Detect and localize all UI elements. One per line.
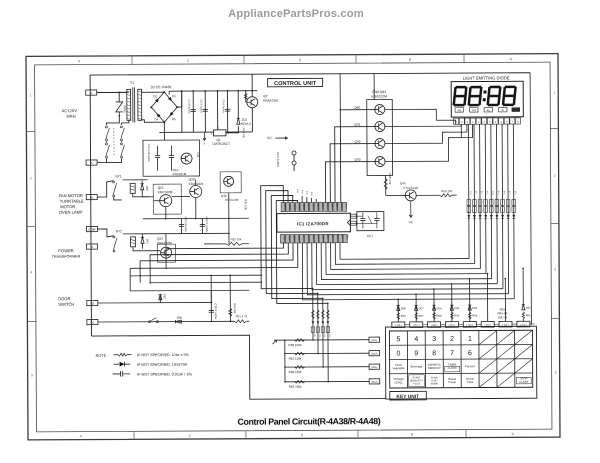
wire IC row d [130, 243, 298, 268]
wire IC top pin2 route [266, 190, 318, 293]
wire LED segment line 3 [479, 124, 482, 268]
junction scan top 3 [322, 298, 324, 300]
junction top rail x239 [237, 90, 239, 92]
svg-text:SEG-F: SEG-F [307, 204, 309, 211]
diode arrow on segment 7 [501, 215, 504, 219]
svg-text:DOOR: DOOR [58, 296, 70, 301]
wire scan row 3 [322, 298, 324, 367]
IC1 top pin box 3 [291, 202, 295, 211]
transformer T1 core [132, 87, 134, 122]
wire key column G7 [415, 294, 417, 322]
svg-text:4: 4 [414, 336, 418, 343]
frame tick bottom 2 [245, 431, 247, 439]
frame tick top 3 [355, 55, 357, 63]
resistor R68 wire [385, 176, 387, 196]
key grid hline 3 [390, 372, 533, 375]
transistor Q22 box [157, 244, 175, 262]
wire key column G1 [522, 268, 524, 304]
svg-text:LEVEL: LEVEL [394, 380, 403, 384]
svg-text:7: 7 [450, 350, 454, 357]
wire VA common vertical [284, 340, 286, 382]
wire bus line 1 [340, 242, 469, 259]
IC1 bottom pin box 4 [295, 234, 299, 243]
frame tick bottom 1 [133, 431, 135, 439]
subcircuit box Q10 [143, 140, 200, 176]
wire G8 link [405, 324, 410, 326]
svg-text:KTC1514M: KTC1514M [403, 186, 418, 190]
diode D54 [468, 305, 471, 310]
svg-text:AC120V: AC120V [62, 108, 78, 113]
svg-text:VC: VC [409, 220, 414, 224]
bridge corner dot top [163, 91, 165, 93]
note capacitor symbol [113, 373, 120, 375]
wire secondary top to bridge [141, 91, 164, 93]
wire RY1 coil to Q21 [133, 193, 154, 197]
chip resistor R77 b [506, 206, 510, 212]
svg-text:CONTROL UNIT: CONTROL UNIT [274, 81, 317, 87]
wire LED segment line 7 [501, 124, 504, 289]
resistor R64 [469, 312, 471, 319]
junction top rail x182.5 [181, 90, 183, 92]
transistor Q40 [375, 105, 385, 115]
chip resistor R76 a [501, 199, 505, 205]
svg-text:( G1 ): ( G1 ) [520, 323, 527, 327]
svg-text:D5: D5 [172, 117, 176, 121]
junction scan top 4 [327, 303, 329, 305]
IC1 bottom pin box 6 [305, 234, 309, 243]
transistor Q44 [405, 190, 416, 201]
wire Q40 collector to display [385, 109, 456, 124]
key blank diagonal r1c8 [515, 330, 533, 344]
svg-text:(G12): (G12) [371, 381, 378, 384]
relay RY1 contact [113, 181, 115, 183]
diode D32 [159, 295, 162, 300]
transistor Q20 [190, 185, 202, 197]
resistor R69 [440, 194, 452, 197]
svg-text:OSC: OSC [345, 203, 347, 208]
LED connector pin box 2 [459, 118, 464, 124]
junction door1 [210, 302, 212, 304]
key blank diagonal r4c6 [479, 373, 497, 387]
diode arrow on segment 6 [496, 215, 499, 219]
svg-text:Muffin: Muffin [431, 381, 439, 385]
resistor R65 [451, 312, 453, 319]
capacitor C3 wire [226, 91, 228, 132]
IC1 bottom pin box 14 [343, 234, 347, 243]
key grid vline 1 [406, 331, 408, 388]
capacitor C10 symbol [155, 156, 160, 158]
svg-text:R78: R78 [514, 191, 516, 194]
wire RY1 bus [123, 179, 143, 181]
svg-text:Beverage: Beverage [411, 364, 423, 368]
IC1 body [277, 213, 351, 232]
svg-text:KRC243M: KRC243M [158, 190, 173, 194]
wire box to rail [163, 132, 165, 140]
chip box scan 1 [311, 327, 314, 333]
chip resistor R71 b [473, 207, 477, 213]
svg-text:FAN MOTOR: FAN MOTOR [59, 193, 83, 198]
connector G12 box [369, 379, 380, 384]
capacitor C3 symbol [225, 109, 230, 111]
control unit bottom boundary wire [91, 335, 385, 401]
wire IC top pin1 route [261, 185, 313, 288]
svg-text:R83 150k: R83 150k [289, 385, 302, 389]
wire LED segment line 6 [495, 124, 498, 284]
connector G11 box [369, 364, 380, 369]
arrow VC below Q44 [410, 201, 412, 217]
junction scan top 1 [312, 288, 314, 290]
LED digit 2 (8) [469, 87, 482, 105]
wire mid horizontal a [143, 217, 249, 220]
relay RY2 coil [130, 237, 135, 247]
svg-text:SEG-B: SEG-B [288, 204, 290, 211]
svg-text:6: 6 [468, 350, 472, 357]
svg-text:( G4 ): ( G4 ) [466, 323, 473, 327]
resistor R82 [295, 366, 305, 369]
wire mid horizontal b [143, 232, 230, 234]
svg-text:Q42: Q42 [354, 140, 360, 144]
connector G7 box [410, 322, 423, 328]
svg-text:D56: D56 [437, 306, 442, 310]
diode arrow on segment 2 [473, 215, 476, 219]
IC1 bottom pin box 7 [309, 234, 313, 243]
frame tick bottom 3 [357, 430, 359, 438]
svg-text:KEY UNIT: KEY UNIT [396, 394, 419, 400]
wire bridge minus out [163, 122, 165, 132]
svg-text:IC1 IZA700DR: IC1 IZA700DR [297, 221, 329, 226]
IC1 top pin box 7 [309, 202, 313, 211]
wire varistor to interlock [106, 116, 119, 125]
key START inner box [409, 375, 425, 387]
LED connector pin box 10 [504, 118, 509, 124]
svg-text:IF NOT SPECIFIED, 1SS270A: IF NOT SPECIFIED, 1SS270A [137, 363, 188, 367]
svg-text:VDD: VDD [340, 203, 342, 208]
svg-text:( G2 ): ( G2 ) [502, 323, 509, 327]
svg-text:R18 15k: R18 15k [242, 128, 246, 138]
svg-text:KRA101M: KRA101M [263, 99, 278, 103]
key grid vline 4 [460, 331, 462, 388]
svg-text:KRA101M: KRA101M [225, 198, 239, 202]
key blank diagonal r3c8 [515, 359, 533, 373]
wire key row 4 [285, 380, 369, 382]
diode arrow scan 3 [322, 321, 325, 324]
rail vertical plain [181, 91, 183, 132]
LED digit 3 (8) [488, 87, 501, 105]
wire key row 1 [274, 339, 368, 341]
wire bus line 5 [321, 242, 491, 280]
IC1 top pin box 12 [333, 202, 337, 211]
IC1 top pin box 5 [300, 202, 304, 211]
wire Q22 emitter [165, 259, 167, 269]
frame tick left 2 [27, 225, 35, 227]
svg-text:TRANSFORMER: TRANSFORMER [52, 255, 81, 259]
interlock switch 3 [120, 126, 122, 128]
chip resistor R71 a [473, 200, 477, 206]
svg-text:PLUS: PLUS [413, 382, 420, 386]
wire IC top pin4 route [276, 200, 328, 303]
diode arrow on segment 4 [484, 215, 487, 219]
resistor scan 4 [327, 310, 329, 319]
svg-text:D98: D98 [177, 316, 183, 320]
chip resistor R74 b [489, 206, 493, 212]
svg-text:R68 2.2k: R68 2.2k [388, 173, 392, 184]
wire IC row b [150, 243, 288, 255]
wire row290 to C38 [210, 290, 212, 302]
wire G2 link [512, 323, 517, 325]
svg-text:CLEAR: CLEAR [519, 380, 528, 384]
LED connector pin box 12 [515, 118, 520, 124]
key unit outer box [385, 326, 536, 399]
wire primary bottom [121, 120, 129, 123]
svg-text:GND: GND [345, 235, 347, 240]
wire A1 to transformer primary [97, 91, 129, 93]
bridge diode D4 triangle [157, 113, 161, 117]
resistor R58 [294, 339, 304, 342]
capacitor C12 symbol [169, 156, 174, 158]
svg-text:R77: R77 [508, 191, 510, 194]
IC1 top pin box 8 [314, 202, 318, 211]
svg-text:RY1: RY1 [116, 174, 122, 178]
svg-text:SEG-G: SEG-G [312, 203, 314, 210]
frame tick right 3 [551, 318, 559, 320]
svg-text:Q21: Q21 [158, 186, 164, 190]
bridge diode D3 triangle [168, 97, 172, 101]
key grid vline 3 [442, 331, 444, 388]
wire scan row 2 [317, 293, 319, 353]
ground arrow below Q1 [203, 132, 205, 140]
wire Q42 base to IC [330, 144, 375, 203]
KEY UNIT box [390, 391, 427, 400]
wire G5 link [458, 323, 463, 325]
frame tick left 3 [27, 320, 35, 322]
wire IC top pin3 route [271, 195, 323, 298]
note resistor symbol [114, 354, 118, 356]
svg-text:( G5 ): ( G5 ) [449, 323, 456, 327]
svg-text:KRA222M: KRA222M [157, 241, 172, 245]
resistor R50 wire [229, 275, 231, 321]
svg-text:D1: D1 [90, 321, 94, 325]
svg-text:R58 150k: R58 150k [289, 343, 302, 347]
CONTROL UNIT label box [268, 78, 323, 86]
bridge corner dot bottom [163, 121, 165, 123]
transistor Q21 [160, 195, 172, 207]
wire Q22 collector [165, 234, 167, 247]
wire interlock link2 [120, 141, 122, 142]
svg-text:D4: D4 [154, 117, 158, 121]
svg-text:Q22: Q22 [157, 237, 163, 241]
border frame inner [35, 62, 552, 432]
connector terminal COM y228 [86, 226, 97, 231]
svg-text:T1: T1 [130, 81, 134, 85]
connector pin circle P1 [292, 151, 296, 155]
key grid vline 5 [478, 331, 480, 388]
transistor Q21 box [153, 184, 181, 214]
LED connector pin box 7 [487, 118, 492, 124]
LED connector pin box 4 [470, 118, 475, 124]
wire Q41 collector to display [385, 124, 461, 126]
svg-text:LM78L05CT: LM78L05CT [212, 142, 230, 146]
junction key row 2 [284, 353, 286, 355]
chip resistor R72 a [478, 200, 482, 206]
svg-text:R73: R73 [486, 191, 488, 194]
svg-text:A: A [204, 141, 206, 145]
wire Q1 input [216, 91, 218, 130]
junction top rail x194 [192, 90, 194, 92]
svg-text:D30: D30 [145, 186, 149, 192]
IC1 bottom pin box 5 [300, 234, 304, 243]
svg-text:IF NOT SPECIFIED, 0.01uF / 16: IF NOT SPECIFIED, 0.01uF / 16v [137, 372, 192, 376]
wire RY2 top [97, 229, 114, 237]
wire IC row c [140, 243, 293, 261]
svg-text:SEG-C: SEG-C [293, 204, 295, 211]
wire P1 stub [293, 155, 295, 161]
resistor R81 [295, 352, 305, 355]
svg-text:9: 9 [414, 350, 418, 357]
regulator Q1 box [213, 130, 226, 136]
svg-text:R66: R66 [401, 314, 406, 318]
junction door row C38 [211, 321, 213, 323]
svg-text:SEG-D: SEG-D [297, 204, 299, 211]
wire key column G8 [397, 299, 399, 322]
chip resistor R77 a [506, 199, 510, 205]
connector terminal A y91 [86, 90, 97, 95]
IC1 bottom pin box 3 [290, 234, 294, 243]
bridge diode D5 triangle [170, 112, 174, 116]
wire bus line 2 [335, 242, 474, 264]
svg-text:2: 2 [554, 174, 556, 178]
LED connector pin box 1 [454, 118, 459, 124]
connector G10 box [369, 351, 380, 356]
key blank diagonal r3c6 [479, 359, 497, 373]
wire bus line 8 [307, 242, 509, 295]
wire G1 link [530, 323, 535, 325]
svg-text:R81 150k: R81 150k [289, 357, 302, 361]
wire ZD1 top [237, 110, 239, 118]
svg-text:( G3 ): ( G3 ) [484, 323, 491, 327]
svg-text:G10: G10 [318, 334, 320, 338]
wire Q20 Q21 link [172, 196, 190, 198]
svg-text:5: 5 [396, 336, 400, 343]
diode arrow scan 2 [317, 321, 320, 324]
IC1 right pin box a [351, 214, 357, 218]
wire key column G3 [486, 274, 488, 322]
connector terminal D2 y302 [87, 300, 98, 305]
wire bus line 9 [302, 242, 514, 300]
svg-text:Q20: Q20 [189, 178, 195, 182]
capacitor C20 wire [180, 219, 182, 234]
key TIMER CLOCK inner box [445, 366, 460, 372]
svg-text:Potato: Potato [448, 380, 456, 384]
resistor R68 zigzag [384, 179, 387, 190]
wire long row f [150, 281, 262, 284]
svg-text:LIGHT EMITTING DIODE: LIGHT EMITTING DIODE [463, 75, 510, 80]
LED annunciator box 3 [484, 108, 492, 112]
key blank diagonal r2c8 [515, 344, 533, 358]
LED connector pin box 5 [476, 118, 481, 124]
svg-text:1: 1 [468, 336, 472, 343]
IC1 top pin box 11 [328, 202, 332, 211]
wire coil top link [114, 197, 122, 200]
diode D57 [415, 305, 418, 310]
frame tick right 2 [551, 223, 559, 225]
junction scan 2 [317, 353, 319, 355]
transistor Q10 [181, 153, 192, 164]
arrow VA [272, 340, 276, 344]
wire scan row 4 [327, 303, 329, 381]
chip resistor R74 a [489, 199, 493, 205]
chip resistor R73 a [484, 199, 488, 205]
svg-text:0: 0 [397, 350, 401, 357]
svg-text:A: A [90, 91, 92, 95]
control unit top boundary wire [90, 73, 530, 75]
svg-text:R70: R70 [469, 191, 471, 194]
transformer T1 primary winding [127, 89, 131, 120]
wire interlock join top [120, 123, 122, 125]
frame tick right 1 [550, 128, 558, 130]
wire LED segment line 8 [507, 124, 510, 294]
wire left drop [129, 268, 131, 290]
connector G9 box [369, 337, 380, 342]
svg-text:DIG-1: DIG-1 [316, 203, 318, 209]
chip resistor R72 b [478, 207, 482, 213]
svg-text:3: 3 [432, 336, 436, 343]
svg-text:8: 8 [432, 350, 436, 357]
svg-text:R30 3.3k: R30 3.3k [244, 199, 248, 210]
svg-text:D55: D55 [454, 306, 459, 310]
wire G4 link [476, 323, 481, 325]
wire bridge plus out [177, 91, 182, 107]
wire RY1 top [97, 181, 114, 197]
svg-text:1: 1 [553, 91, 555, 95]
key grid hline 2 [390, 358, 533, 361]
LED connector pin box 8 [493, 118, 498, 124]
connector terminal A1 y196 [86, 194, 97, 199]
svg-text:Control Panel Circuit(R-4A38/R: Control Panel Circuit(R-4A38/R-4A48) [238, 416, 381, 427]
svg-text:D3: D3 [172, 94, 176, 98]
svg-text:VC: VC [267, 136, 272, 140]
wire key column G4 [469, 279, 471, 322]
control unit right boundary wire [530, 73, 531, 325]
svg-text:N: N [91, 245, 93, 249]
svg-text:VRS1: VRS1 [123, 105, 127, 113]
junction key row 1 [284, 339, 286, 341]
junction Q20 rail [195, 218, 197, 220]
resistor R67 [415, 312, 417, 319]
svg-text:C38 0.1u/25v: C38 0.1u/25v [214, 303, 218, 320]
IC1 bottom pin box 1 [280, 235, 284, 244]
IC1 top pin box 6 [305, 202, 309, 211]
chip box scan 4 [326, 327, 329, 333]
svg-text:D57: D57 [419, 306, 424, 310]
wire left drop b [139, 261, 141, 283]
digit driver group box [367, 99, 393, 175]
key blank diagonal r1c6 [479, 330, 497, 344]
svg-text:DIG-3: DIG-3 [326, 203, 328, 209]
key grid vline 6 [496, 330, 498, 387]
transistor Q46 [224, 176, 234, 186]
svg-text:R64: R64 [472, 314, 477, 318]
diode arrow scan 4 [327, 321, 330, 324]
svg-text:1: 1 [30, 93, 32, 97]
svg-text:G: G [512, 432, 515, 436]
svg-text:R71: R71 [474, 191, 476, 194]
svg-text:15k x 6: 15k x 6 [498, 315, 508, 319]
border frame outer [26, 54, 560, 440]
junction Q46 [228, 217, 230, 219]
wire IC top pin5 stub [301, 196, 303, 202]
svg-text:SEG-E: SEG-E [302, 204, 304, 211]
wire key row 2 [285, 352, 369, 354]
